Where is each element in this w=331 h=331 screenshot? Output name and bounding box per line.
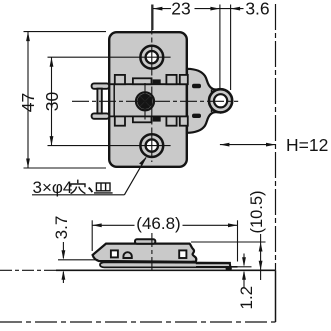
mounting surface line xyxy=(0,269,276,271)
dim 3.6 xyxy=(220,5,244,91)
panel bottom dash-dot xyxy=(0,321,276,323)
dim 30 xyxy=(50,57,54,145)
horizontal centreline xyxy=(72,100,238,102)
dim 1.2 xyxy=(238,254,252,289)
svg-text:23: 23 xyxy=(171,0,190,18)
side view tongue xyxy=(196,263,238,266)
side view centreline xyxy=(151,233,153,270)
dim H=12 xyxy=(220,143,276,147)
tongue foot xyxy=(226,266,232,270)
cam screw cross recess xyxy=(137,94,152,109)
boss outer ring xyxy=(209,89,232,112)
side view square hole right xyxy=(179,250,186,258)
screw vertical centreline xyxy=(144,83,146,120)
dim 23 xyxy=(153,5,220,91)
svg-text:1.2: 1.2 xyxy=(237,286,256,310)
wing left bracket bottom bar xyxy=(92,113,110,118)
main plate body xyxy=(109,32,187,167)
svg-text:47: 47 xyxy=(18,93,38,112)
bottom mounting hole outer xyxy=(140,134,163,157)
bottom mounting hole inner xyxy=(146,139,158,151)
wing channel bottom edge xyxy=(109,115,187,117)
svg-text:(46.8): (46.8) xyxy=(136,214,180,233)
top mounting hole inner xyxy=(146,51,158,63)
arm step mark lower xyxy=(192,114,201,118)
svg-text:30: 30 xyxy=(42,92,62,112)
wing left bracket top bar xyxy=(92,83,110,88)
slot upper bump B xyxy=(133,78,152,84)
slot upper black mark C xyxy=(153,79,161,84)
kanji ana (hole) xyxy=(71,180,86,194)
wing channel top edge xyxy=(109,83,187,85)
side view main body xyxy=(93,244,197,262)
dim 46.8 xyxy=(92,220,237,261)
slot lower black mark C xyxy=(153,116,161,121)
hole crosshair top xyxy=(48,56,171,58)
dim 10.5 xyxy=(191,234,266,280)
slot upper D xyxy=(166,75,176,84)
panel edge dash-dot vertical xyxy=(275,4,277,270)
side view square hole left xyxy=(111,250,118,257)
slot upper A xyxy=(115,75,125,84)
svg-text:3.6: 3.6 xyxy=(245,0,269,18)
svg-text:H=12: H=12 xyxy=(286,135,328,155)
arm step mark upper xyxy=(192,84,201,88)
slot lower bump B xyxy=(133,116,152,122)
side view screw tab xyxy=(135,239,155,243)
side arm with boss xyxy=(187,69,231,133)
boss hole xyxy=(214,94,227,107)
dim 3.7 xyxy=(58,242,98,283)
slot upper E xyxy=(180,75,188,84)
side view dome xyxy=(123,252,131,258)
inner plate edge line xyxy=(113,85,115,116)
side view base plate xyxy=(100,262,230,267)
hole crosshair bottom xyxy=(48,145,171,147)
wing left bracket stem xyxy=(97,89,101,114)
panel front edge xyxy=(275,270,277,322)
top mounting hole outer xyxy=(140,46,163,69)
hole label leader xyxy=(32,157,147,195)
svg-text:(10.5): (10.5) xyxy=(248,190,266,233)
japanese comma xyxy=(89,188,93,193)
svg-text:3×φ4: 3×φ4 xyxy=(33,178,73,197)
dim 47 xyxy=(24,32,107,168)
slot lower A xyxy=(115,116,125,125)
svg-text:3.7: 3.7 xyxy=(52,216,71,240)
centre cam screw outline xyxy=(136,92,154,110)
vertical centreline through holes xyxy=(151,5,153,163)
slot lower E xyxy=(180,116,188,125)
kanji sara (countersunk) xyxy=(94,183,113,193)
slot lower D xyxy=(166,116,176,125)
